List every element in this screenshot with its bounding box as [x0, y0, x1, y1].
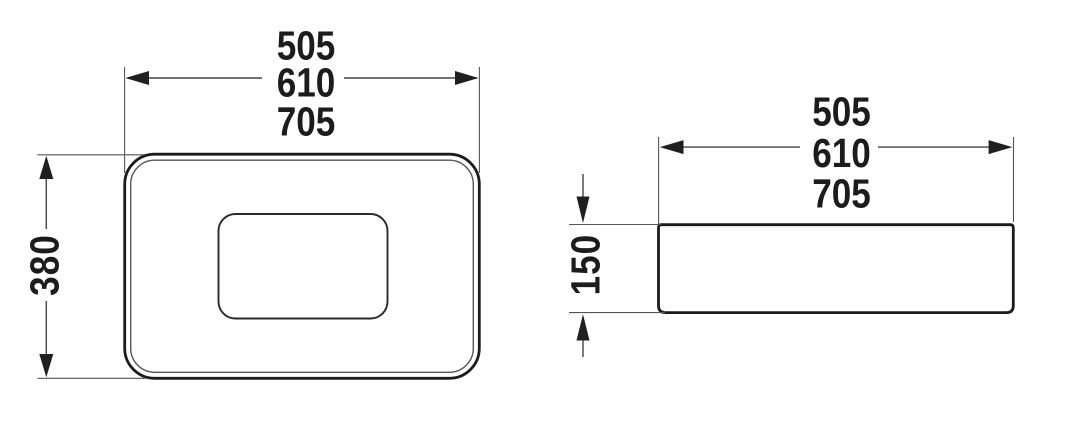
svg-text:380: 380: [23, 234, 68, 296]
svg-text:705: 705: [812, 172, 871, 217]
plan depth dimension arrowhead down: [39, 354, 53, 377]
plan depth dimension line upper segment: [45, 158, 47, 229]
side width dimension extension line right: [1013, 137, 1015, 222]
side width dimension extension line left: [658, 137, 660, 224]
side width dimension arrowhead right: [989, 140, 1013, 154]
svg-text:610: 610: [812, 132, 871, 177]
basin plan view outer outline: [125, 154, 480, 378]
plan width dimension extension line left: [124, 67, 126, 173]
side height dimension arrowhead up: [577, 314, 590, 340]
side width dimension line right segment: [878, 146, 1009, 148]
plan depth dimension arrowhead up: [39, 156, 53, 179]
svg-text:705: 705: [277, 100, 336, 145]
basin side view body: [659, 225, 1014, 313]
plan depth dimension extension line top: [38, 154, 145, 156]
plan width dimension line right segment: [344, 77, 477, 79]
plan depth dimension line lower segment: [45, 301, 47, 375]
side height dimension extension line bottom: [569, 312, 665, 314]
side height dimension extension line top: [569, 224, 661, 226]
plan width dimension line left segment: [128, 77, 262, 79]
basin plan view inner rim line: [131, 160, 474, 372]
side width dimension arrowhead left: [660, 140, 684, 154]
svg-text:150: 150: [564, 234, 609, 296]
plan depth dimension extension line bottom: [38, 377, 146, 379]
svg-text:505: 505: [812, 90, 871, 135]
side height dimension tail line bottom: [582, 341, 584, 358]
plan width dimension arrowhead left: [126, 71, 150, 85]
plan width dimension extension line right: [478, 67, 480, 173]
side height dimension arrowhead down: [577, 197, 590, 224]
basin plan view center bowl rectangle: [219, 214, 388, 319]
plan width dimension arrowhead right: [455, 71, 479, 85]
side height dimension tail line top: [582, 174, 584, 197]
side width dimension line left segment: [663, 146, 800, 148]
